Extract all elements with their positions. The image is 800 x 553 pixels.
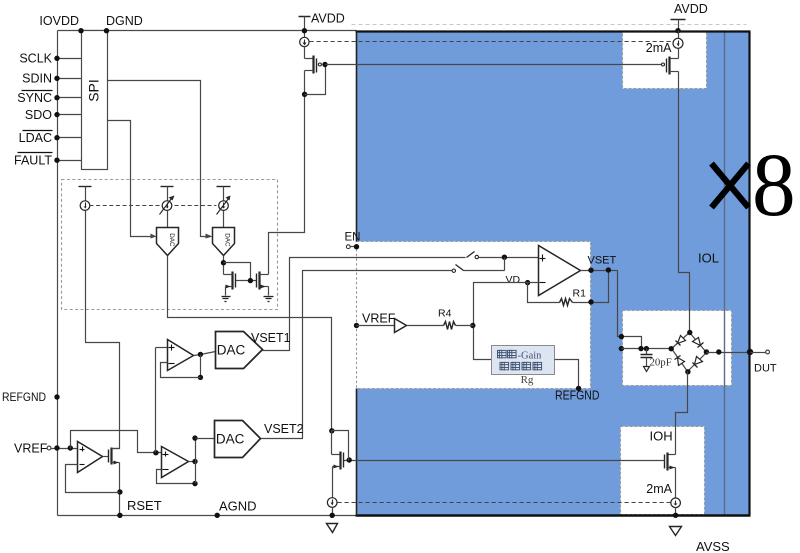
svg-text:FAULT: FAULT [14, 154, 52, 168]
svg-text:VSET2: VSET2 [264, 422, 304, 436]
svg-text:EN: EN [345, 231, 361, 243]
svg-text:SDO: SDO [25, 108, 52, 122]
svg-text:DUT: DUT [754, 363, 777, 375]
svg-text:VREF: VREF [14, 442, 48, 456]
svg-text:SDIN: SDIN [22, 72, 52, 86]
svg-text:-Gain: -Gain [518, 350, 543, 361]
svg-text:AGND: AGND [219, 499, 257, 514]
svg-text:R1: R1 [573, 287, 587, 299]
svg-text:REFGND: REFGND [555, 389, 600, 403]
svg-text:SCLK: SCLK [19, 52, 52, 66]
svg-text:SYNC: SYNC [17, 91, 52, 105]
svg-text:RSET: RSET [127, 498, 162, 513]
svg-text:DAC: DAC [216, 432, 245, 447]
svg-text:DAC: DAC [224, 233, 231, 247]
svg-text:IOVDD: IOVDD [39, 14, 79, 28]
svg-text:LDAC: LDAC [19, 131, 52, 145]
svg-text:AVSS: AVSS [696, 539, 730, 553]
svg-text:8: 8 [752, 136, 796, 235]
svg-text:VSET: VSET [588, 254, 617, 266]
svg-text:SPI: SPI [86, 79, 102, 102]
svg-text:VSET1: VSET1 [251, 331, 291, 345]
svg-text:DGND: DGND [106, 14, 143, 28]
svg-text:VREF: VREF [362, 312, 396, 326]
svg-text:20pF: 20pF [650, 356, 672, 368]
svg-text:2mA: 2mA [646, 482, 672, 496]
svg-text:AVDD: AVDD [311, 12, 345, 26]
svg-text:IOH: IOH [650, 429, 673, 444]
svg-text:DAC: DAC [217, 343, 246, 358]
svg-text:2mA: 2mA [646, 41, 672, 55]
svg-text:IOL: IOL [698, 251, 719, 266]
svg-text:VD: VD [506, 274, 521, 286]
svg-text:DAC: DAC [168, 233, 175, 247]
svg-text:Rg: Rg [521, 374, 534, 386]
svg-text:R4: R4 [438, 308, 452, 320]
svg-text:AVDD: AVDD [674, 2, 708, 16]
svg-text:REFGND: REFGND [2, 390, 46, 404]
